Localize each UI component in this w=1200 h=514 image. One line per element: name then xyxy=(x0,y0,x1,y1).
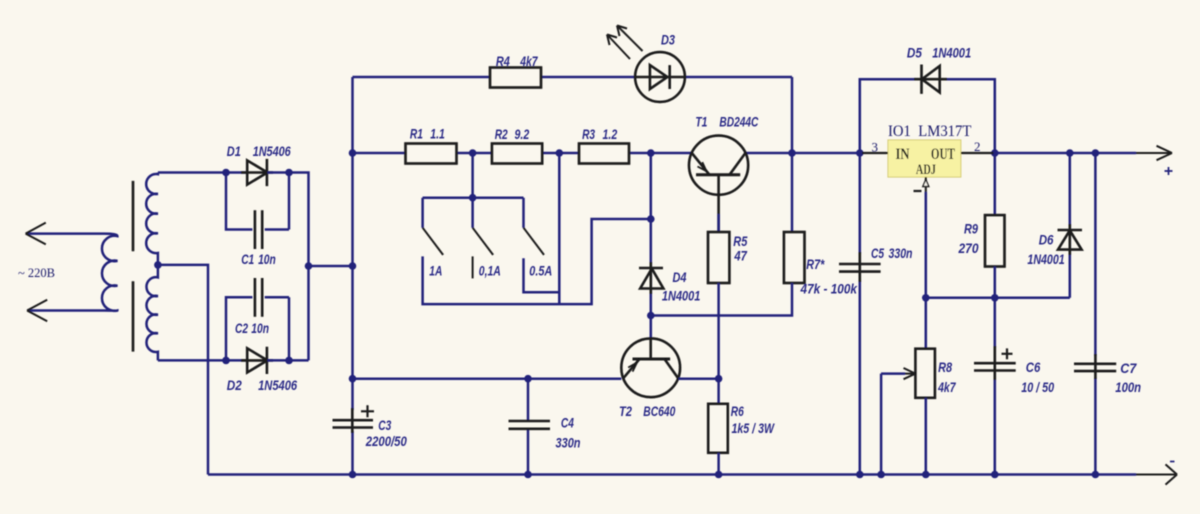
wire center tap to bottom bus xyxy=(158,265,208,475)
transistor T2 xyxy=(621,338,680,397)
svg-text:10n: 10n xyxy=(258,251,276,267)
transformer primary winding xyxy=(102,234,117,311)
transformer secondary top winding xyxy=(146,173,158,265)
wire R9 bottom xyxy=(994,267,997,298)
svg-text:100n: 100n xyxy=(1115,379,1141,395)
wire input bottom xyxy=(27,309,104,312)
svg-text:0,1A: 0,1A xyxy=(479,263,501,279)
T1 emitter collector xyxy=(692,153,746,175)
node left bus / main bus xyxy=(349,149,357,157)
transformer core xyxy=(132,181,135,352)
wire D2 cathode xyxy=(267,359,308,362)
T2 base lead xyxy=(649,338,652,359)
node D6 top xyxy=(1066,149,1074,157)
label minus xyxy=(1170,461,1175,463)
svg-text:~ 220В: ~ 220В xyxy=(18,265,55,280)
wire D5 branch xyxy=(860,79,995,153)
wire rectifier jumper xyxy=(309,265,353,268)
svg-text:10n: 10n xyxy=(251,320,269,336)
wire C5 branch xyxy=(859,153,862,475)
node left bus / T2 line xyxy=(349,375,357,383)
node top line / R7 xyxy=(788,149,796,157)
svg-text:R4: R4 xyxy=(496,53,510,69)
svg-text:D5: D5 xyxy=(907,45,922,61)
input arrow top xyxy=(26,223,46,245)
svg-text:T2: T2 xyxy=(619,403,632,419)
node C7 top xyxy=(1092,149,1100,157)
wire ADJ node line xyxy=(926,297,1070,300)
wire main bus xyxy=(353,152,1137,155)
switch S1 blade xyxy=(423,228,444,255)
node C5 bottom xyxy=(856,471,864,479)
wire OUT to R9 xyxy=(994,153,997,215)
svg-text:330n: 330n xyxy=(889,245,913,261)
node switch bus xyxy=(469,194,477,202)
output arrow minus xyxy=(1136,464,1177,484)
node C7 bottom xyxy=(1092,471,1100,479)
ADJ minus sign xyxy=(914,190,922,192)
input arrow bottom xyxy=(27,300,47,321)
svg-text:2: 2 xyxy=(974,139,981,154)
capacitor C1 xyxy=(255,210,262,249)
wire D1 cathode down to D2 xyxy=(267,173,308,361)
svg-text:C5: C5 xyxy=(871,245,884,261)
transformer secondary bottom winding xyxy=(146,265,157,361)
svg-text:1N4001: 1N4001 xyxy=(1027,251,1064,267)
svg-text:R6: R6 xyxy=(731,403,744,419)
svg-text:1N5406: 1N5406 xyxy=(258,377,297,393)
wire left vertical bus xyxy=(351,77,354,475)
diode D2 xyxy=(241,347,273,374)
wire bus to R7 xyxy=(791,153,794,232)
svg-text:4k7: 4k7 xyxy=(937,379,956,395)
wire R7 to T2 base node xyxy=(651,283,792,316)
svg-text:D2: D2 xyxy=(227,377,242,393)
node D2 cathode xyxy=(285,357,293,365)
wire R8 wiper xyxy=(881,372,905,375)
svg-text:C3: C3 xyxy=(378,417,391,433)
resistor R5 xyxy=(708,232,729,283)
wire riser R2-R3 junction down xyxy=(558,153,561,304)
svg-text:IO1 LM317T: IO1 LM317T xyxy=(888,123,972,140)
regulator IO1 LM317T xyxy=(888,140,961,177)
svg-text:BC640: BC640 xyxy=(643,403,675,419)
wire secondary bottom to D2 xyxy=(158,359,247,362)
node C6 bottom xyxy=(991,471,999,479)
potentiometer R8 xyxy=(915,349,935,398)
wire C1 loop xyxy=(226,173,289,230)
svg-text:47: 47 xyxy=(734,248,748,264)
svg-text:OUT: OUT xyxy=(931,146,955,163)
node T2 collector / R5-R6 xyxy=(715,375,723,383)
node ADJ / R9 bottom line xyxy=(922,294,930,302)
svg-text:C6: C6 xyxy=(1026,359,1041,375)
diode D1 xyxy=(241,159,273,186)
node R2-R3 xyxy=(556,149,564,157)
svg-text:T1: T1 xyxy=(695,114,707,130)
svg-text:C4: C4 xyxy=(561,415,574,431)
wire S1 contact to D4 node xyxy=(423,219,651,304)
svg-text:1.1: 1.1 xyxy=(430,126,445,142)
T1 base bar xyxy=(696,173,740,176)
svg-text:IN: IN xyxy=(896,146,910,163)
svg-text:C7: C7 xyxy=(1120,360,1137,376)
R8 wiper arrow xyxy=(904,368,916,379)
capacitor C7 xyxy=(1074,354,1116,379)
svg-text:10 / 50: 10 / 50 xyxy=(1021,379,1054,395)
transistor T1 xyxy=(689,136,748,195)
wire ADJ down to R8 xyxy=(925,192,928,349)
node R6 bottom xyxy=(715,471,723,479)
svg-text:R9: R9 xyxy=(964,221,978,237)
svg-text:R8: R8 xyxy=(938,359,952,375)
wire C6 branch xyxy=(994,298,997,475)
wire S3 contact xyxy=(524,258,560,292)
svg-text:R1: R1 xyxy=(410,126,423,142)
LED D3 arrows xyxy=(607,26,643,60)
svg-text:D3: D3 xyxy=(661,31,675,47)
svg-text:1k5 / 3W: 1k5 / 3W xyxy=(732,420,776,436)
svg-text:R7*: R7* xyxy=(806,256,824,272)
wire T2 emitter line xyxy=(353,377,719,380)
resistor R7* xyxy=(784,232,805,283)
svg-text:D6: D6 xyxy=(1039,232,1054,248)
node R1-R2 xyxy=(469,149,477,157)
node left bus / bottom bus xyxy=(349,471,357,479)
diode D4 xyxy=(639,262,663,294)
T2 base bar xyxy=(633,358,671,361)
svg-text:330n: 330n xyxy=(556,435,581,451)
node center tap xyxy=(154,261,162,269)
node jumper left xyxy=(305,262,313,270)
svg-text:47k - 100k: 47k - 100k xyxy=(800,281,858,297)
capacitor C6 xyxy=(974,346,1016,380)
svg-text:R2: R2 xyxy=(495,126,508,142)
capacitor C4 xyxy=(509,421,551,429)
T1 emitter arrow xyxy=(698,162,707,171)
node jumper right xyxy=(349,262,357,270)
LED D3 xyxy=(635,52,685,102)
svg-text:3: 3 xyxy=(872,140,879,155)
svg-text:9.2: 9.2 xyxy=(515,126,530,142)
svg-text:R3: R3 xyxy=(582,126,595,142)
ADJ pin arrowhead xyxy=(923,180,929,187)
wire R8 wiper riser xyxy=(880,374,883,475)
wire switch stubs xyxy=(423,198,524,228)
svg-text:1N4001: 1N4001 xyxy=(932,45,971,61)
wire bottom bus xyxy=(208,473,1136,476)
T2 emitter collector xyxy=(623,359,679,379)
resistor R2 xyxy=(492,144,542,164)
node T2 base / R7 wire xyxy=(647,312,655,320)
wire riser to switch bus xyxy=(471,153,474,198)
label plus xyxy=(1165,167,1173,175)
resistor R3 xyxy=(579,144,629,164)
resistor R4 xyxy=(490,68,541,88)
switch S3 blade xyxy=(524,228,545,255)
node IN xyxy=(856,149,864,157)
svg-text:0.5A: 0.5A xyxy=(529,263,552,279)
wire switch top bus xyxy=(423,196,524,199)
wire R5 to R6 xyxy=(717,283,720,404)
svg-text:1N4001: 1N4001 xyxy=(662,288,701,304)
node wiper bottom xyxy=(877,471,885,479)
svg-text:BD244C: BD244C xyxy=(719,114,759,130)
wire bus to D4 to T2 xyxy=(650,153,653,338)
node OUT xyxy=(991,149,999,157)
wire C4 branch xyxy=(527,379,530,475)
svg-text:C2: C2 xyxy=(235,320,248,336)
output arrow plus xyxy=(1136,146,1172,160)
node C4 top xyxy=(524,375,532,383)
svg-text:C1: C1 xyxy=(241,251,254,267)
C6 plus xyxy=(1002,348,1013,359)
svg-text:4k7: 4k7 xyxy=(519,53,538,69)
wire T1 base to R5 xyxy=(717,214,720,232)
svg-text:ADJ: ADJ xyxy=(916,162,936,178)
svg-text:1N5406: 1N5406 xyxy=(253,143,291,159)
svg-text:1A: 1A xyxy=(429,263,442,279)
wire input top xyxy=(26,232,104,235)
capacitor C3 xyxy=(333,408,374,433)
C3 plus xyxy=(361,405,374,417)
svg-text:1.2: 1.2 xyxy=(603,126,618,142)
resistor R9 xyxy=(985,215,1005,266)
wire top line R4-D3 xyxy=(353,77,793,153)
wire C2 loop xyxy=(226,297,289,360)
node R9 bottom xyxy=(991,294,999,302)
wire secondary top to D1 xyxy=(158,171,247,174)
svg-text:D1: D1 xyxy=(227,143,241,159)
resistor R6 xyxy=(708,404,728,453)
wire C7 branch xyxy=(1094,153,1097,475)
node D1 anode xyxy=(222,169,230,177)
node R8 bottom xyxy=(922,471,930,479)
ADJ pin stub xyxy=(925,177,927,192)
node R3-T1 xyxy=(647,149,655,157)
wire R8 to bottom bus xyxy=(925,398,928,475)
resistor R1 xyxy=(406,144,457,164)
T1 base lead xyxy=(717,175,720,231)
svg-text:R5: R5 xyxy=(733,233,747,249)
capacitor C5 xyxy=(839,252,881,282)
diode D5 xyxy=(914,65,947,94)
svg-text:D4: D4 xyxy=(673,269,687,285)
switch S2 blade xyxy=(473,228,494,255)
wire D6 branch xyxy=(1069,153,1072,298)
node C4 bottom xyxy=(524,471,532,479)
wire R6 to bottom bus xyxy=(717,453,720,475)
capacitor C2 xyxy=(255,278,262,317)
svg-text:2200/50: 2200/50 xyxy=(365,433,407,449)
node D2 anode xyxy=(222,357,230,365)
switch S2 contact xyxy=(472,256,474,278)
IO1 pin wires xyxy=(862,152,994,154)
node D4 line / switch wire xyxy=(647,215,655,223)
node D1 cathode xyxy=(285,169,293,177)
T2 emitter arrow xyxy=(628,363,637,372)
diode D6 xyxy=(1058,224,1083,255)
svg-text:270: 270 xyxy=(958,240,979,256)
